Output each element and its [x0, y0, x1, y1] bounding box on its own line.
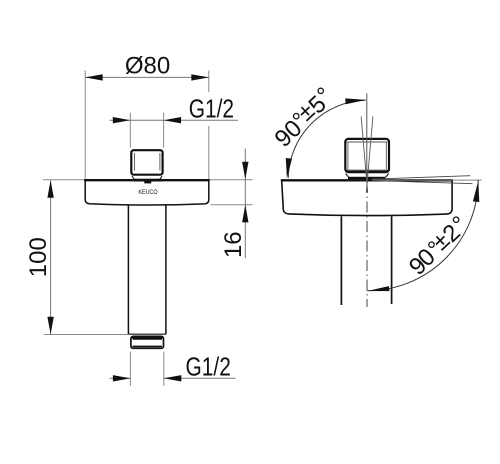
connector thread nub left view: [144, 181, 151, 183]
dimension Ø80 arrow left: [85, 74, 103, 80]
reference line 90deg horizontal: [372, 179, 482, 181]
threaded cap bottom line: [132, 345, 162, 347]
connector neck dark band right view: [348, 177, 386, 180]
pipe bottom line left view: [128, 333, 166, 335]
connector lower line right view: [347, 169, 388, 171]
ceiling line left view: [43, 179, 253, 181]
dimension 100 arrow top: [47, 180, 53, 198]
connector inner side lines right view: [348, 142, 386, 170]
flange bottom extension line (16 dim): [211, 204, 253, 206]
svg-text:16: 16: [220, 231, 247, 258]
pipe left view: [128, 205, 166, 334]
arc 90deg5: [288, 100, 365, 178]
arc 90deg2 arrow top: [473, 181, 479, 202]
tolerance fan lines 5deg: [361, 116, 373, 192]
angle text 90deg5: [270, 82, 338, 153]
dimension Ø80 arrow right: [191, 74, 209, 80]
dimension 16 arrow top: [242, 162, 248, 180]
connector neck right view: [346, 174, 389, 178]
dimension G1/2 bottom arrow right: [164, 375, 182, 381]
connector neck dark band left view: [134, 179, 162, 182]
svg-text:Ø80: Ø80: [125, 53, 170, 80]
dimension G1/2 bottom arrow left: [113, 375, 130, 381]
arc 90deg2: [367, 180, 478, 291]
arc 90deg5 arrow top: [345, 98, 366, 104]
dimension 16 arrow bottom: [242, 205, 248, 223]
dimension 100 line: [50, 181, 52, 335]
dimension Ø80 extension lines: [85, 71, 209, 179]
dimension 16 line: [244, 149, 246, 259]
tolerance lines 2deg: [372, 176, 473, 184]
connector inner top line right view: [347, 141, 388, 143]
centerline dash-dot right view: [366, 182, 368, 307]
pipe right view: [341, 216, 391, 305]
flange top thick line left view: [84, 179, 210, 181]
angle text 90deg2: [404, 211, 473, 281]
dimension Ø80 line: [85, 76, 209, 78]
centerline vertical solid top right view: [366, 93, 368, 180]
dimension G1/2 top extension lines: [130, 113, 163, 148]
dimension 100 arrow bottom: [47, 317, 53, 335]
flange right view: [282, 181, 452, 216]
arc 90deg2 arrow bottom: [368, 286, 390, 291]
svg-text:G1/2: G1/2: [189, 96, 234, 124]
svg-text:G1/2: G1/2: [186, 354, 231, 382]
connector neck sides left view: [132, 176, 162, 179]
svg-text:KEUCO: KEUCO: [138, 189, 157, 196]
dimension G1/2 top line: [110, 119, 239, 121]
flange top thick line right view: [281, 179, 453, 181]
connector square right view: [345, 139, 389, 172]
connector square left view: [131, 150, 162, 175]
flange left view: [85, 180, 209, 205]
threaded cap left view: [131, 336, 164, 348]
dimension G1/2 top arrow left: [113, 117, 131, 123]
svg-text:100: 100: [25, 237, 52, 277]
dimension G1/2 bottom extension lines: [130, 352, 163, 386]
arc 90deg5 arrow bottom: [286, 158, 292, 178]
dimension 100 bottom extension line: [44, 334, 128, 336]
dimension G1/2 top arrow right: [164, 117, 182, 123]
dimension G1/2 bottom line: [110, 377, 236, 379]
threaded cap dark band: [132, 337, 163, 340]
connector inner lines left view: [135, 153, 160, 171]
